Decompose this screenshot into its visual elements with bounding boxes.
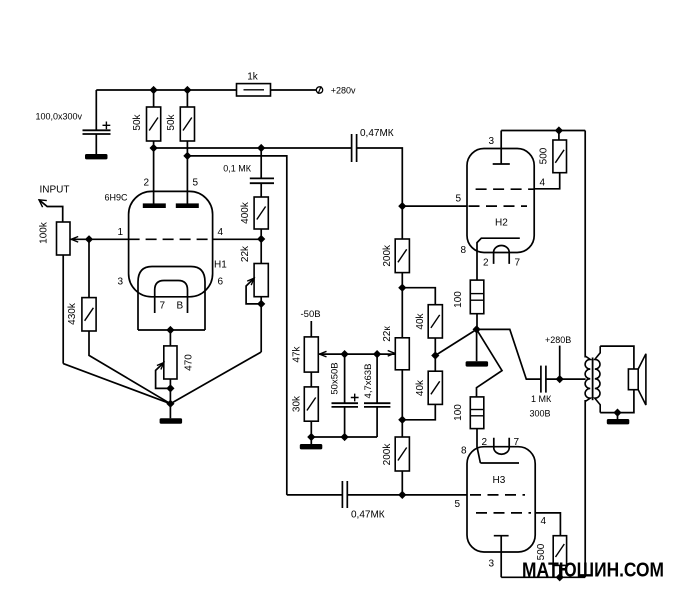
resistor 100 upper cathode xyxy=(453,280,484,329)
wire cathode junction to 1MK cap xyxy=(477,329,541,379)
resistor 30k bias xyxy=(291,387,318,444)
tube V1 cathode arch inner heater xyxy=(155,281,188,314)
node heater center xyxy=(167,327,174,334)
wire -50B lead xyxy=(310,321,312,337)
svg-text:100,0х300v: 100,0х300v xyxy=(36,112,83,122)
resistor 40k lower xyxy=(402,371,442,420)
capacitor 1 MK 300B xyxy=(530,366,586,419)
node pin4 junction xyxy=(258,236,265,243)
svg-text:30k: 30k xyxy=(291,395,302,412)
node main ground junction xyxy=(167,400,174,407)
svg-text:100k: 100k xyxy=(39,221,50,244)
svg-text:200k: 200k xyxy=(382,244,393,267)
wire to main ground xyxy=(169,404,171,419)
ground bias network xyxy=(300,444,323,449)
svg-text:50х50В: 50х50В xyxy=(329,362,340,394)
potentiometer 47k bias xyxy=(291,337,395,387)
svg-text:400k: 400k xyxy=(240,201,251,224)
node under 50k left xyxy=(150,145,157,152)
wire 22k to ground junction diagonal xyxy=(170,352,261,404)
svg-text:1k: 1k xyxy=(247,72,259,83)
potentiometer 22k middle balance xyxy=(382,326,409,437)
tube V3 anode bar and lead xyxy=(494,536,509,578)
resistor 50k right anode load xyxy=(166,90,194,204)
svg-text:50k: 50k xyxy=(132,113,143,130)
wire bias caps bottom xyxy=(311,436,377,438)
svg-text:В: В xyxy=(177,301,184,312)
svg-text:7: 7 xyxy=(160,301,166,312)
svg-text:Н3: Н3 xyxy=(493,475,506,486)
tube V3 H3 envelope xyxy=(467,447,535,552)
node 30k bottom xyxy=(308,434,315,441)
svg-text:3: 3 xyxy=(489,559,495,570)
svg-text:40k: 40k xyxy=(415,312,426,329)
svg-text:22к: 22к xyxy=(382,326,393,342)
wire H2 grid xyxy=(402,205,467,207)
svg-text:+280В: +280В xyxy=(545,335,571,345)
node 22k upper bottom xyxy=(258,301,265,308)
tube V1 anode bar right pin 5 xyxy=(176,203,199,208)
wire to speaker ground xyxy=(617,413,619,419)
node top rail right xyxy=(184,87,191,94)
potentiometer 470 cathode xyxy=(156,330,195,404)
wire cap to H2 grid rail corner xyxy=(357,148,403,206)
svg-text:7: 7 xyxy=(515,258,521,269)
ground under 100,0x300v cap xyxy=(85,154,108,159)
tube V3 screen grid dashed xyxy=(476,512,531,514)
wire to 40k upper xyxy=(402,288,435,305)
resistor 430k grid leak xyxy=(67,239,170,403)
wire 100k bottom diagonal to ground junction xyxy=(63,364,170,404)
node 0,1MK branch xyxy=(258,145,265,152)
svg-text:0,1 МК: 0,1 МК xyxy=(223,164,252,174)
tube V2 cathode line and pin 8 lead xyxy=(477,238,520,280)
wire H3 anode bottom to right rail xyxy=(501,576,585,578)
svg-text:2: 2 xyxy=(482,437,488,448)
svg-text:50k: 50k xyxy=(166,113,177,130)
wire coupling rail upper y147 xyxy=(154,147,352,149)
svg-text:200k: 200k xyxy=(382,443,393,466)
transformer T1 primary winding xyxy=(585,356,590,402)
svg-text:Н1: Н1 xyxy=(214,260,227,271)
wire cathode junction zigzag to 100 lower xyxy=(477,329,503,397)
wire top B+ rail xyxy=(96,89,316,91)
capacitor 0,47MK top coupling xyxy=(352,128,394,162)
svg-text:INPUT: INPUT xyxy=(40,185,70,196)
svg-text:МАТЮШИН.СОМ: МАТЮШИН.СОМ xyxy=(522,560,664,582)
node under 50k right xyxy=(184,153,191,160)
svg-text:2: 2 xyxy=(144,178,150,189)
svg-text:100: 100 xyxy=(453,291,464,308)
resistor 200k lower grid leak xyxy=(382,437,409,495)
node 470 wiper tie xyxy=(167,385,174,392)
svg-text:6: 6 xyxy=(218,277,224,288)
wire right rail transformer to H3 anode xyxy=(584,400,586,577)
speaker xyxy=(628,354,646,405)
node 22k mid bottom / 200k lower top xyxy=(399,416,406,423)
capacitor 0,47MK bottom coupling xyxy=(342,481,384,521)
wire pin4 to 400k/22k node xyxy=(213,238,262,240)
resistor 40k upper xyxy=(415,305,442,372)
node H3 grid junction xyxy=(399,492,406,499)
tube V2 H2 envelope xyxy=(467,149,534,253)
tube V2 screen grid dashed xyxy=(476,188,535,190)
svg-text:3: 3 xyxy=(118,277,124,288)
ground main xyxy=(160,418,183,423)
svg-text:1: 1 xyxy=(118,227,124,238)
node 100k wiper xyxy=(86,236,93,243)
svg-text:-50В: -50В xyxy=(301,309,321,320)
node 40k middle junction xyxy=(432,352,439,359)
resistor 400k xyxy=(240,197,268,239)
tube V3 control grid dashed xyxy=(470,494,525,496)
wire secondary loop bottom xyxy=(600,390,634,413)
input terminal arrow xyxy=(39,200,63,222)
resistor 100 lower cathode xyxy=(453,397,484,463)
wire 40k mid to cathode node diagonal xyxy=(435,329,476,355)
node 500 lower bottom xyxy=(556,574,563,581)
wire H3 screen to 500 lower xyxy=(535,513,560,536)
svg-text:40k: 40k xyxy=(415,379,426,396)
+280B label and lead xyxy=(545,335,571,379)
resistor 50k left anode load xyxy=(132,90,161,204)
wire cathode junction to ground xyxy=(476,329,478,361)
svg-text:1 МК: 1 МК xyxy=(531,394,552,404)
node 200k upper bottom xyxy=(399,284,406,291)
wire bottom rail y495 with 0,47MK xyxy=(287,494,467,496)
node cathode junction xyxy=(473,326,480,333)
svg-text:47k: 47k xyxy=(291,345,302,362)
wire H2 anode to right rail xyxy=(501,130,585,132)
svg-text:8: 8 xyxy=(461,245,467,256)
terminal +280v xyxy=(316,86,356,96)
tube V3 heater arc pins 2 7 xyxy=(494,438,509,454)
resistor 500 lower screen xyxy=(536,536,566,578)
svg-text:430k: 430k xyxy=(67,302,78,325)
svg-text:0,47МК: 0,47МК xyxy=(360,128,394,139)
tube V1 grids dashed line xyxy=(129,238,213,240)
svg-text:470: 470 xyxy=(183,354,194,371)
tube V2 anode bar and lead xyxy=(493,131,510,165)
tube V2 control grid dashed xyxy=(469,205,528,207)
potentiometer 22k upper xyxy=(240,239,268,352)
node top rail left xyxy=(150,87,157,94)
resistor 500 upper screen xyxy=(534,131,566,189)
node 500 upper top xyxy=(556,127,563,134)
capacitor C 100,0x300v electrolytic xyxy=(36,90,111,154)
svg-text:5: 5 xyxy=(193,178,199,189)
potentiometer 100k volume xyxy=(39,221,129,363)
svg-text:2: 2 xyxy=(483,258,489,269)
wire secondary loop top xyxy=(600,346,634,369)
svg-text:Н2: Н2 xyxy=(495,218,508,229)
tube V3 cathode line xyxy=(480,462,519,464)
svg-text:500: 500 xyxy=(538,147,549,164)
svg-text:7: 7 xyxy=(514,437,520,448)
svg-text:4: 4 xyxy=(218,227,224,238)
tube V2 heater arc pins 2 7 xyxy=(494,246,510,264)
svg-text:5: 5 xyxy=(455,499,461,510)
resistor R 1k xyxy=(237,72,271,97)
svg-text:22k: 22k xyxy=(240,245,251,262)
svg-text:100: 100 xyxy=(453,404,464,421)
wire second rail y154 to left channel feedback rail xyxy=(187,156,286,495)
svg-text:4: 4 xyxy=(540,178,546,189)
svg-text:0,47МК: 0,47МК xyxy=(351,510,385,521)
capacitor 50x50B electrolytic xyxy=(329,354,358,437)
wire heater bottom bar xyxy=(138,329,205,331)
svg-text:4,7х63В: 4,7х63В xyxy=(363,364,374,399)
node H2 grid junction xyxy=(399,203,406,210)
svg-text:4: 4 xyxy=(541,516,547,527)
svg-text:6Н9С: 6Н9С xyxy=(105,193,129,203)
tube V1 anode bar left pin 2 xyxy=(143,203,166,208)
ground speaker xyxy=(607,419,630,424)
node bias wire left xyxy=(341,351,348,358)
ground cathode xyxy=(466,361,489,366)
svg-text:3: 3 xyxy=(489,136,495,147)
svg-text:+280v: +280v xyxy=(331,86,356,96)
transformer T1 core xyxy=(592,358,594,401)
capacitor 0,1 MK xyxy=(223,148,274,197)
node bias wire right xyxy=(374,351,381,358)
svg-text:8: 8 xyxy=(461,446,467,457)
wire right rail H2 anode to transformer xyxy=(584,131,586,358)
svg-text:5: 5 xyxy=(456,194,462,205)
tube V1 6N9S envelope xyxy=(129,191,213,296)
node +280B tap xyxy=(556,376,563,383)
resistor 200k upper grid leak xyxy=(382,206,409,338)
svg-text:500: 500 xyxy=(536,543,547,560)
svg-text:300В: 300В xyxy=(530,409,551,419)
tube V1 cathode arch outer xyxy=(138,267,205,331)
node 50x50B bottom xyxy=(341,434,348,441)
capacitor 4,7x63B electrolytic xyxy=(363,354,390,437)
transformer T1 secondary winding xyxy=(595,346,600,413)
node speaker ground xyxy=(614,409,621,416)
